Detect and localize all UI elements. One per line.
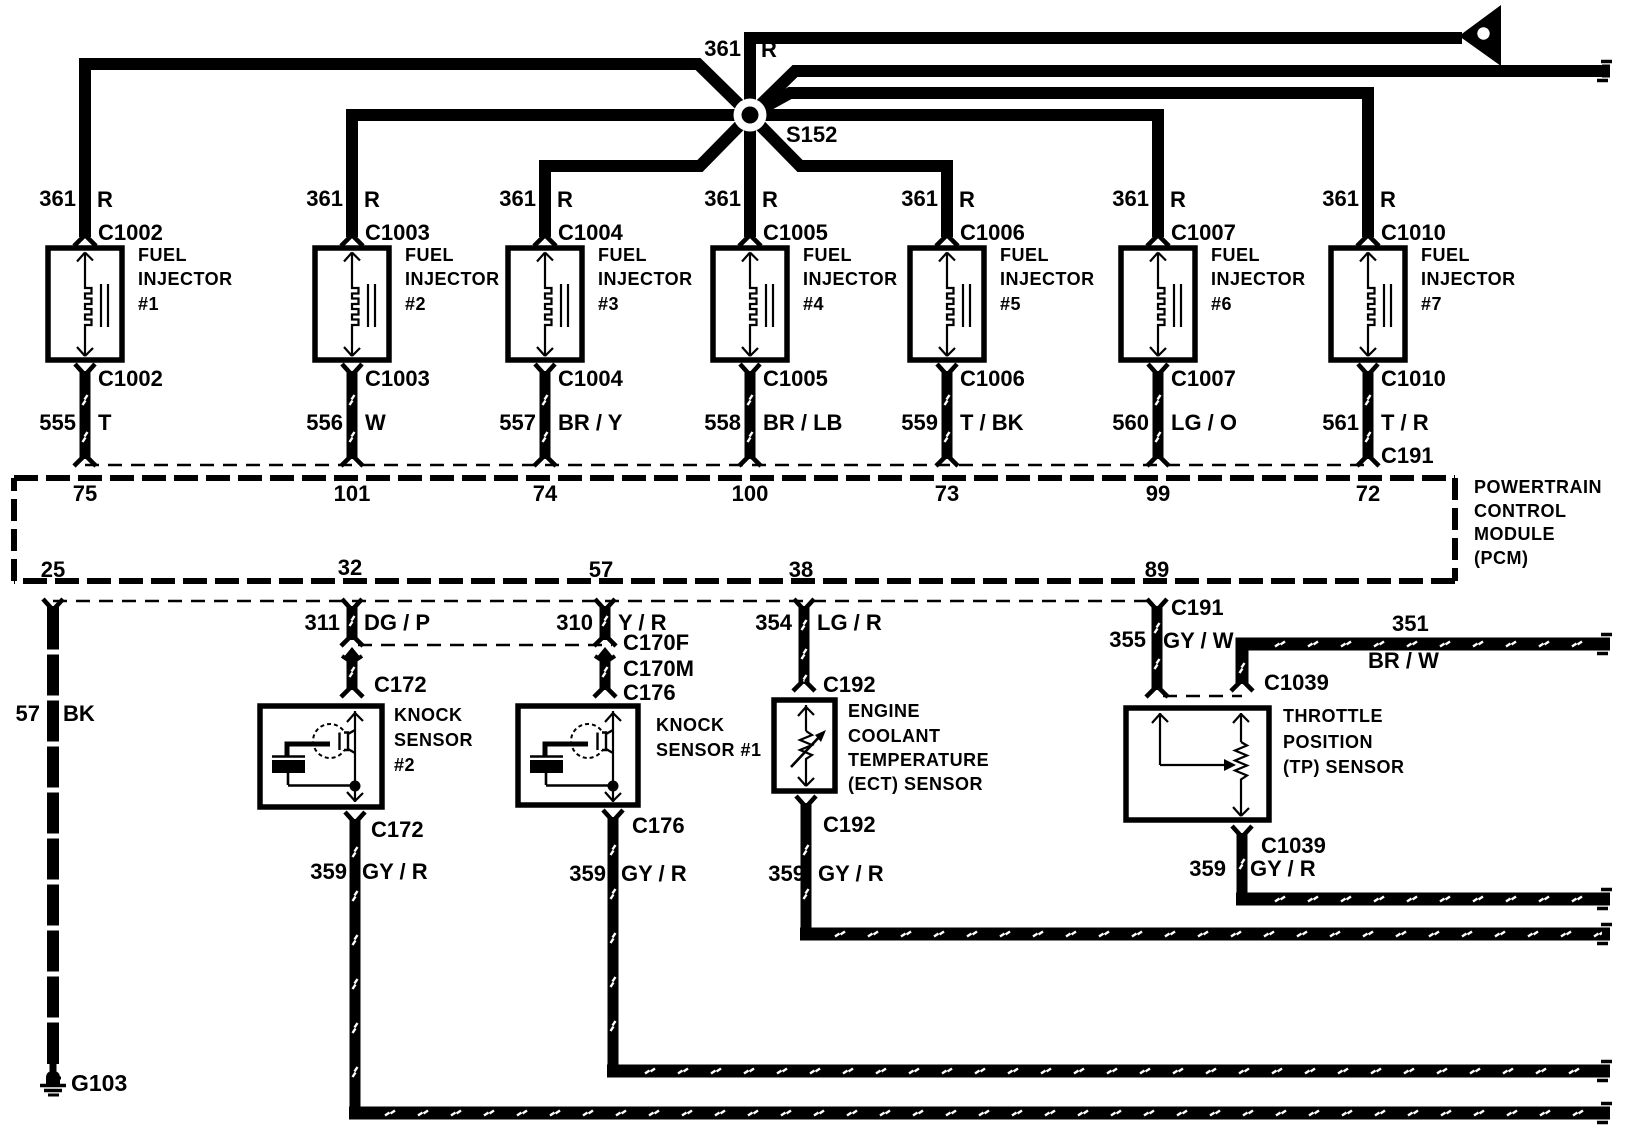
connector C1006 (bottom) of injector #5 bbox=[937, 364, 1025, 391]
connector C1007 (bottom) of injector #6 bbox=[1148, 364, 1236, 391]
connector C172 (bottom) bbox=[345, 812, 424, 842]
off-page connector arrow (top right) bbox=[1459, 5, 1501, 66]
svg-text:C1007: C1007 bbox=[1171, 220, 1236, 245]
wire 361 R splice S152 to fuel injector #2 (C1003) bbox=[352, 115, 750, 237]
wire 354 foot at C192 bbox=[793, 681, 815, 691]
svg-text:89: 89 bbox=[1145, 557, 1169, 582]
svg-text:25: 25 bbox=[41, 557, 65, 582]
connector C1039 (bottom) bbox=[1232, 826, 1326, 858]
svg-text:SENSOR: SENSOR bbox=[394, 730, 473, 750]
svg-text:C192: C192 bbox=[823, 672, 876, 697]
wire 561 foot at PCM connector line bbox=[1357, 456, 1379, 466]
PCM pin 74 bbox=[533, 481, 558, 506]
svg-text:361: 361 bbox=[39, 186, 76, 211]
svg-text:BR / W: BR / W bbox=[1368, 648, 1439, 673]
svg-text:361: 361 bbox=[306, 186, 343, 211]
svg-text:354: 354 bbox=[755, 610, 792, 635]
svg-text:359: 359 bbox=[768, 861, 805, 886]
connector C176 (bottom) bbox=[603, 810, 685, 838]
svg-text:361: 361 bbox=[1112, 186, 1149, 211]
PCM pin 99 bbox=[1146, 481, 1170, 506]
label 354 LG/R bbox=[755, 610, 882, 635]
connector C1003 (bottom) of injector #2 bbox=[342, 364, 430, 391]
svg-text:(ECT) SENSOR: (ECT) SENSOR bbox=[848, 774, 983, 794]
wire 311 foot at connector C170 line bbox=[341, 636, 363, 646]
svg-text:INJECTOR: INJECTOR bbox=[803, 269, 898, 289]
wire 311 DG/P PCM pin 32 to knock sensor #2 upper segment bbox=[342, 599, 362, 640]
svg-text:C1039: C1039 bbox=[1264, 670, 1329, 695]
svg-text:555: 555 bbox=[39, 410, 76, 435]
svg-text:(TP) SENSOR: (TP) SENSOR bbox=[1283, 757, 1405, 777]
wire 361 R splice S152 to fuel injector #4 (C1005) bbox=[744, 115, 756, 237]
label 310 Y/R bbox=[556, 610, 666, 635]
wire 355 foot at C1039 line bbox=[1146, 687, 1168, 697]
throttle position sensor box bbox=[1126, 708, 1269, 820]
wire 555 T injector #1 to PCM pin 75 bbox=[83, 371, 88, 459]
wire 556 foot at PCM connector line bbox=[341, 456, 363, 466]
svg-text:INJECTOR: INJECTOR bbox=[1421, 269, 1516, 289]
svg-text:#2: #2 bbox=[394, 755, 415, 775]
svg-text:310: 310 bbox=[556, 610, 593, 635]
wire 57 BK PCM pin 25 to ground G103 bbox=[43, 599, 63, 1064]
svg-text:GY / R: GY / R bbox=[362, 859, 428, 884]
svg-text:557: 557 bbox=[499, 410, 536, 435]
svg-text:FUEL: FUEL bbox=[405, 245, 454, 265]
svg-text:FUEL: FUEL bbox=[1421, 245, 1470, 265]
svg-text:INJECTOR: INJECTOR bbox=[1211, 269, 1306, 289]
svg-text:FUEL: FUEL bbox=[138, 245, 187, 265]
svg-text:73: 73 bbox=[935, 481, 959, 506]
svg-text:DG / P: DG / P bbox=[364, 610, 430, 635]
svg-text:INJECTOR: INJECTOR bbox=[598, 269, 693, 289]
wire 311 foot at C172 bbox=[341, 687, 363, 697]
label 361 R at injector #4 bbox=[704, 186, 778, 212]
connector C1010 (top) of injector #7 bbox=[1357, 220, 1446, 246]
injector #3 name label bbox=[598, 245, 693, 314]
svg-text:CONTROL: CONTROL bbox=[1474, 501, 1567, 521]
svg-text:C1003: C1003 bbox=[365, 220, 430, 245]
connector C1004 (bottom) of injector #3 bbox=[535, 364, 624, 391]
knock sensor #2 name label bbox=[394, 705, 473, 775]
wire 351 BR/W off-page to TP sensor bbox=[1240, 642, 1605, 685]
wire 558 foot at PCM connector line bbox=[739, 456, 761, 466]
svg-text:POSITION: POSITION bbox=[1283, 732, 1373, 752]
svg-text:#7: #7 bbox=[1421, 294, 1442, 314]
svg-text:MODULE: MODULE bbox=[1474, 524, 1555, 544]
svg-text:R: R bbox=[364, 187, 380, 212]
label 355 GY/W bbox=[1109, 627, 1233, 653]
svg-text:C1005: C1005 bbox=[763, 366, 828, 391]
injector #6 name label bbox=[1211, 245, 1306, 314]
TP sensor name label bbox=[1283, 706, 1405, 777]
svg-text:C1004: C1004 bbox=[558, 366, 624, 391]
svg-text:72: 72 bbox=[1356, 481, 1380, 506]
label 361 R at injector #6 bbox=[1112, 186, 1186, 212]
connector C1002 (bottom) of injector #1 bbox=[75, 364, 163, 391]
svg-text:#1: #1 bbox=[138, 294, 159, 314]
ground G103 symbol bbox=[40, 1064, 66, 1095]
svg-text:C1002: C1002 bbox=[98, 220, 163, 245]
PCM pin 75 bbox=[73, 481, 97, 506]
wire 557 foot at PCM connector line bbox=[534, 456, 556, 466]
svg-text:GY / R: GY / R bbox=[818, 861, 884, 886]
wire 558 BR / LB injector #4 to PCM pin 100 bbox=[748, 371, 753, 459]
svg-text:C176: C176 bbox=[623, 680, 676, 705]
svg-text:R: R bbox=[761, 37, 777, 62]
svg-text:361: 361 bbox=[1322, 186, 1359, 211]
wire 559 foot at PCM connector line bbox=[936, 456, 958, 466]
svg-text:C192: C192 bbox=[823, 812, 876, 837]
svg-text:C1039: C1039 bbox=[1261, 833, 1326, 858]
PCM bottom pin 25 bbox=[41, 557, 65, 582]
label 311 DG/P bbox=[305, 610, 431, 635]
svg-text:556: 556 bbox=[306, 410, 343, 435]
svg-text:38: 38 bbox=[789, 557, 813, 582]
label 361 R at injector #5 bbox=[901, 186, 975, 212]
svg-text:361: 361 bbox=[704, 36, 741, 61]
splice S152 node bbox=[734, 99, 767, 132]
svg-text:T / BK: T / BK bbox=[960, 410, 1024, 435]
wire 361 R splice S152 to fuel injector #3 (C1004) bbox=[545, 115, 750, 237]
injector #5 name label bbox=[1000, 245, 1095, 314]
svg-text:BK: BK bbox=[63, 701, 95, 726]
fuel injector #5 box bbox=[910, 248, 984, 360]
wire 559 T / BK injector #5 to PCM pin 73 bbox=[945, 371, 950, 459]
svg-text:BR / LB: BR / LB bbox=[763, 410, 842, 435]
svg-text:101: 101 bbox=[334, 481, 371, 506]
svg-text:558: 558 bbox=[704, 410, 741, 435]
injector #4 name label bbox=[803, 245, 898, 314]
wire 311 male arrow below C170 bbox=[342, 647, 362, 660]
svg-text:INJECTOR: INJECTOR bbox=[1000, 269, 1095, 289]
svg-text:INJECTOR: INJECTOR bbox=[138, 269, 233, 289]
wire 359 GY/R knock sensor #1 to off-page bbox=[607, 817, 1604, 1074]
connector dashed line above PCM (injector harness) bbox=[85, 464, 1368, 467]
connector C1004 (top) of injector #3 bbox=[534, 220, 624, 246]
off-page S end of wire 361 bbox=[1597, 62, 1612, 81]
label 361 R at splice bbox=[704, 36, 777, 62]
label 361 R at injector #7 bbox=[1322, 186, 1396, 212]
connector C192 (bottom) bbox=[796, 796, 876, 837]
PCM bottom pin 89 bbox=[1145, 557, 1169, 582]
connector C1039 dashed line bbox=[1163, 695, 1242, 698]
label 559 T / BK bbox=[901, 410, 1023, 435]
svg-text:559: 559 bbox=[901, 410, 938, 435]
injector #1 internal coil and pins bbox=[77, 253, 108, 357]
PCM pin 100 bbox=[732, 481, 769, 506]
label 361 R at injector #2 bbox=[306, 186, 380, 212]
injector #2 internal coil and pins bbox=[344, 253, 375, 357]
wire 555 foot at PCM connector line bbox=[74, 456, 96, 466]
wire 310 male arrow C170M bbox=[595, 647, 615, 660]
wire 355 GY/W PCM pin 89 to TP sensor bbox=[1147, 599, 1167, 690]
svg-text:R: R bbox=[557, 187, 573, 212]
ECT sensor internals (thermistor) bbox=[791, 705, 826, 786]
svg-text:BR / Y: BR / Y bbox=[558, 410, 623, 435]
svg-text:#2: #2 bbox=[405, 294, 426, 314]
wire 359 GY/R knock sensor #2 to off-page bbox=[349, 819, 1604, 1116]
PCM bottom pin 57 bbox=[589, 557, 613, 582]
svg-text:GY / W: GY / W bbox=[1163, 628, 1234, 653]
off-page S end (TP 359) bbox=[1597, 890, 1612, 909]
svg-text:351: 351 bbox=[1392, 611, 1429, 636]
wire 351 foot at C1039 bbox=[1231, 681, 1253, 691]
svg-text:THROTTLE: THROTTLE bbox=[1283, 706, 1383, 726]
wire 361 R splice S152 to fuel injector #5 (C1006) bbox=[750, 115, 947, 237]
injector #7 internal coil and pins bbox=[1360, 253, 1391, 357]
svg-text:GY / R: GY / R bbox=[1250, 856, 1316, 881]
svg-text:W: W bbox=[365, 410, 386, 435]
label 555 T bbox=[39, 410, 112, 435]
injector #3 internal coil and pins bbox=[537, 253, 568, 357]
label 560 LG / O bbox=[1112, 410, 1237, 435]
svg-text:SENSOR #1: SENSOR #1 bbox=[656, 740, 762, 760]
powertrain control module (PCM) dashed box bbox=[14, 478, 1455, 581]
label 361 R at injector #3 bbox=[499, 186, 573, 212]
label C191 at PCM pin 72 (top) bbox=[1381, 443, 1434, 468]
svg-text:75: 75 bbox=[73, 481, 97, 506]
wire 361 R splice S152 to fuel injector #1 (C1002) bbox=[85, 64, 750, 237]
svg-text:C1010: C1010 bbox=[1381, 366, 1446, 391]
fuel injector #6 box bbox=[1121, 248, 1195, 360]
connector C1005 (bottom) of injector #4 bbox=[740, 364, 828, 391]
svg-text:POWERTRAIN: POWERTRAIN bbox=[1474, 477, 1602, 497]
svg-text:#3: #3 bbox=[598, 294, 619, 314]
fuel injector #7 box bbox=[1331, 248, 1405, 360]
svg-text:#4: #4 bbox=[803, 294, 824, 314]
svg-text:560: 560 bbox=[1112, 410, 1149, 435]
svg-text:C1005: C1005 bbox=[763, 220, 828, 245]
svg-text:#5: #5 bbox=[1000, 294, 1021, 314]
svg-text:C1002: C1002 bbox=[98, 366, 163, 391]
svg-text:359: 359 bbox=[310, 859, 347, 884]
svg-text:LG / R: LG / R bbox=[817, 610, 882, 635]
svg-text:32: 32 bbox=[338, 555, 362, 580]
off-page S end (ECT 359) bbox=[1597, 925, 1612, 944]
svg-text:C1007: C1007 bbox=[1171, 366, 1236, 391]
svg-text:C1010: C1010 bbox=[1381, 220, 1446, 245]
svg-text:FUEL: FUEL bbox=[1000, 245, 1049, 265]
connector C1006 (top) of injector #5 bbox=[936, 220, 1025, 246]
wire 359 GY/R ECT sensor to off-page bbox=[800, 803, 1604, 937]
svg-text:KNOCK: KNOCK bbox=[656, 715, 725, 735]
wire 359 GY/R TP sensor to off-page bbox=[1236, 833, 1604, 902]
svg-text:57: 57 bbox=[16, 701, 40, 726]
wire 310 Y/R PCM pin 57 to knock sensor #1 upper segment bbox=[595, 599, 615, 640]
PCM bottom pin 38 bbox=[789, 557, 813, 582]
wire 310 foot at connector C170F bbox=[594, 636, 616, 646]
PCM pin 72 bbox=[1356, 481, 1380, 506]
PCM pin 73 bbox=[935, 481, 959, 506]
wire 361 R splice S152 to fuel injector #7 (C1010) bbox=[750, 93, 1368, 237]
svg-text:C176: C176 bbox=[632, 813, 685, 838]
label 361 R at injector #1 bbox=[39, 186, 113, 212]
svg-text:T / R: T / R bbox=[1381, 410, 1429, 435]
injector #1 name label bbox=[138, 245, 233, 314]
connector C170 dashed line bbox=[358, 644, 612, 647]
wire 310 foot at C176 bbox=[594, 687, 616, 697]
label C192 (top) bbox=[823, 672, 876, 697]
svg-text:R: R bbox=[762, 187, 778, 212]
wire 556 W injector #2 to PCM pin 101 bbox=[350, 371, 355, 459]
label 359 GY/R (knock #2) bbox=[310, 859, 427, 884]
svg-text:361: 361 bbox=[901, 186, 938, 211]
svg-text:C1006: C1006 bbox=[960, 220, 1025, 245]
svg-text:FUEL: FUEL bbox=[803, 245, 852, 265]
PCM pin 101 bbox=[334, 481, 371, 506]
svg-text:KNOCK: KNOCK bbox=[394, 705, 463, 725]
ECT sensor name label bbox=[848, 701, 989, 794]
label 359 GY/R (TP) bbox=[1189, 856, 1315, 881]
svg-text:99: 99 bbox=[1146, 481, 1170, 506]
labels C170F C170M C176 bbox=[623, 630, 694, 705]
wire 361 R splice S152 up to off-page arrow bbox=[750, 38, 1462, 115]
svg-text:C1003: C1003 bbox=[365, 366, 430, 391]
connector C1007 (top) of injector #6 bbox=[1147, 220, 1236, 246]
connector C1002 (top) of injector #1 bbox=[74, 220, 163, 246]
wire 361 R splice S152 to fuel injector #6 (C1007) bbox=[750, 115, 1158, 237]
off-page S end (knock #1 359) bbox=[1597, 1062, 1612, 1081]
svg-text:INJECTOR: INJECTOR bbox=[405, 269, 500, 289]
injector #6 internal coil and pins bbox=[1150, 253, 1181, 357]
knock sensor #1 internals bbox=[530, 711, 621, 802]
svg-text:361: 361 bbox=[704, 186, 741, 211]
svg-text:C1006: C1006 bbox=[960, 366, 1025, 391]
label C172 (top) bbox=[374, 672, 427, 697]
svg-text:T: T bbox=[98, 410, 112, 435]
svg-text:C1004: C1004 bbox=[558, 220, 624, 245]
fuel injector #1 box bbox=[48, 248, 122, 360]
svg-text:359: 359 bbox=[1189, 856, 1226, 881]
knock sensor #1 name label bbox=[656, 715, 762, 760]
svg-text:#6: #6 bbox=[1211, 294, 1232, 314]
label 351 bbox=[1392, 611, 1429, 636]
knock sensor #2 box bbox=[260, 706, 382, 807]
svg-text:355: 355 bbox=[1109, 627, 1146, 652]
svg-text:G103: G103 bbox=[71, 1070, 127, 1096]
label C191 (below pin 89) bbox=[1171, 595, 1224, 620]
injector #2 name label bbox=[405, 245, 500, 314]
label S152 bbox=[786, 122, 837, 147]
svg-text:561: 561 bbox=[1322, 410, 1359, 435]
off-page S end (knock #2 359) bbox=[1597, 1104, 1612, 1123]
svg-text:(PCM): (PCM) bbox=[1474, 548, 1529, 568]
label 57 BK bbox=[16, 701, 95, 726]
injector #5 internal coil and pins bbox=[939, 253, 970, 357]
PCM bottom pin 32 bbox=[338, 555, 362, 580]
svg-text:361: 361 bbox=[499, 186, 536, 211]
svg-text:R: R bbox=[97, 187, 113, 212]
injector #4 internal coil and pins bbox=[742, 253, 773, 357]
svg-text:74: 74 bbox=[533, 481, 558, 506]
svg-text:C170M: C170M bbox=[623, 656, 694, 681]
off-page S end (wire 351) bbox=[1597, 635, 1612, 654]
label 359 GY/R (ECT) bbox=[768, 861, 883, 886]
svg-text:C191: C191 bbox=[1171, 595, 1224, 620]
TP sensor internals (potentiometer) bbox=[1152, 713, 1249, 816]
svg-text:C172: C172 bbox=[374, 672, 427, 697]
svg-text:C170F: C170F bbox=[623, 630, 689, 655]
svg-text:ENGINE: ENGINE bbox=[848, 701, 920, 721]
svg-text:C191: C191 bbox=[1381, 443, 1434, 468]
svg-text:FUEL: FUEL bbox=[598, 245, 647, 265]
label 561 T / R bbox=[1322, 410, 1428, 435]
label 359 GY/R (knock #1) bbox=[569, 861, 686, 886]
svg-text:311: 311 bbox=[305, 610, 341, 635]
connector C191 dashed line below PCM bbox=[53, 600, 1157, 603]
svg-text:57: 57 bbox=[589, 557, 613, 582]
label BR/W bbox=[1368, 648, 1439, 673]
wire 354 LG/R PCM pin 38 to ECT sensor bbox=[794, 599, 814, 685]
wire 557 BR / Y injector #3 to PCM pin 74 bbox=[543, 371, 548, 459]
PCM name label bbox=[1474, 477, 1602, 568]
svg-text:COOLANT: COOLANT bbox=[848, 726, 941, 746]
wire 361 R splice S152 to off-page S (right) bbox=[750, 71, 1604, 115]
wire 560 LG / O injector #6 to PCM pin 99 bbox=[1156, 371, 1161, 459]
svg-text:FUEL: FUEL bbox=[1211, 245, 1260, 265]
svg-text:LG / O: LG / O bbox=[1171, 410, 1237, 435]
label 558 BR / LB bbox=[704, 410, 842, 435]
svg-text:R: R bbox=[1380, 187, 1396, 212]
ECT sensor box bbox=[774, 700, 835, 791]
label C1039 (top) bbox=[1264, 670, 1329, 695]
knock sensor #2 internals bbox=[272, 711, 363, 802]
connector C1003 (top) of injector #2 bbox=[341, 220, 430, 246]
svg-text:TEMPERATURE: TEMPERATURE bbox=[848, 750, 989, 770]
wire 560 foot at PCM connector line bbox=[1147, 456, 1169, 466]
svg-text:C172: C172 bbox=[371, 817, 424, 842]
fuel injector #3 box bbox=[508, 248, 582, 360]
connector C1010 (bottom) of injector #7 bbox=[1358, 364, 1446, 391]
injector #7 name label bbox=[1421, 245, 1516, 314]
fuel injector #2 box bbox=[315, 248, 389, 360]
svg-text:R: R bbox=[959, 187, 975, 212]
connector C1005 (top) of injector #4 bbox=[739, 220, 828, 246]
wire 311 lower segment to C172 bbox=[350, 656, 355, 690]
label 557 BR / Y bbox=[499, 410, 622, 435]
wire 561 T / R injector #7 to PCM pin 72 bbox=[1366, 371, 1371, 459]
knock sensor #1 box bbox=[518, 706, 638, 805]
svg-text:GY / R: GY / R bbox=[621, 861, 687, 886]
label 556 W bbox=[306, 410, 386, 435]
fuel injector #4 box bbox=[713, 248, 787, 360]
svg-text:100: 100 bbox=[732, 481, 769, 506]
svg-text:R: R bbox=[1170, 187, 1186, 212]
svg-text:S152: S152 bbox=[786, 122, 837, 147]
wire 310 lower segment to C176 bbox=[603, 656, 608, 690]
label G103 bbox=[71, 1070, 127, 1096]
svg-text:359: 359 bbox=[569, 861, 606, 886]
